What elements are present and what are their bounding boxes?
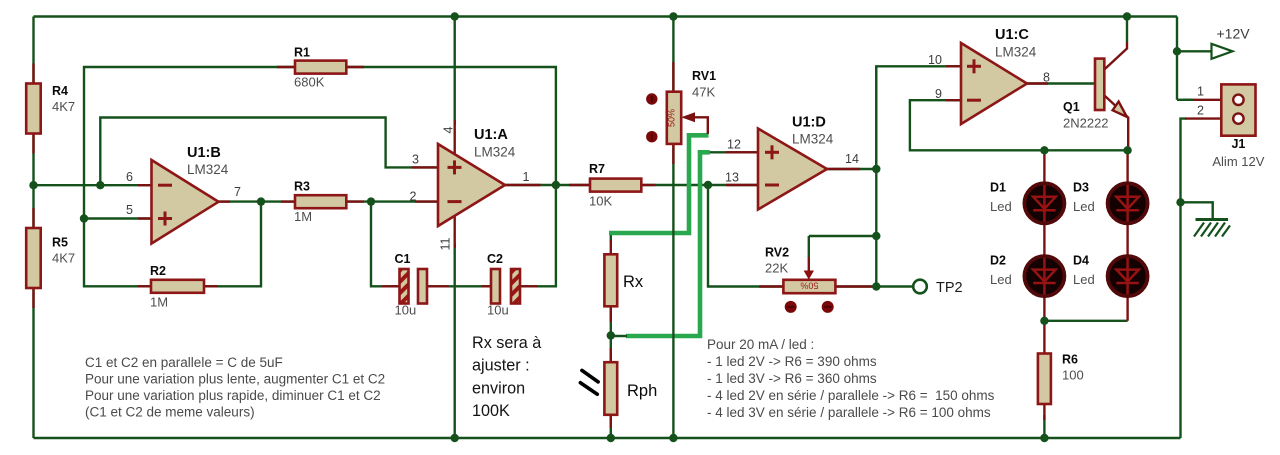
svg-text:Alim 12V: Alim 12V: [1212, 154, 1264, 169]
wire: U1:A pin4 supply from top rail: [454, 17, 456, 126]
op-amp U1:A: [410, 120, 541, 250]
svg-text:6: 6: [126, 170, 133, 184]
LED D1: [990, 150, 1064, 257]
svg-text:C1: C1: [395, 252, 411, 266]
svg-text:11: 11: [438, 237, 452, 250]
svg-text:50%: 50%: [667, 109, 677, 127]
op-amp U1:B: [126, 145, 241, 244]
wire: U1:C pin9 feedback net to LED anode rail: [910, 100, 1128, 150]
node: pin6 feedback junction: [96, 181, 104, 189]
wire: R1 right to U1:A pin1 vertical down to C2: [346, 67, 556, 286]
power flag +12V: [1212, 26, 1251, 59]
svg-text:LM324: LM324: [474, 145, 516, 160]
ground symbol: [1194, 220, 1230, 237]
photoresistor Rph: [580, 348, 657, 428]
svg-text:10K: 10K: [589, 194, 612, 209]
svg-text:R1: R1: [294, 46, 310, 60]
node: pin1/R7/C2 junction: [552, 181, 560, 189]
svg-text:8: 8: [1043, 70, 1050, 84]
green link: U1:D pin12 to Rx/Rph node: [626, 152, 710, 336]
svg-text:Q1: Q1: [1063, 100, 1080, 114]
node: ground symbol junction: [1176, 198, 1184, 206]
svg-text:U1:C: U1:C: [995, 27, 1029, 43]
svg-text:2: 2: [410, 190, 417, 204]
wire: +12V top rail: [34, 15, 1178, 17]
wire: J1 pin2 vertical to ground rail: [1181, 119, 1187, 438]
wire: R1 feedback net (R1 left vertical to pin5/R2): [84, 67, 295, 286]
connector J1: [1177, 84, 1265, 169]
node: D2/D4/R6 junction: [1040, 317, 1048, 325]
wire: Q1 collector from top rail: [1126, 17, 1128, 43]
wire: R3 right to U1:A pin2: [346, 200, 438, 202]
svg-text:- 1 led 3V -> R6 = 360 ohms: - 1 led 3V -> R6 = 360 ohms: [707, 371, 877, 386]
transistor Q1: [1063, 42, 1128, 150]
wire: feedback U1:A pin3 to U1:B pin6 node: [100, 118, 438, 186]
svg-text:10: 10: [928, 53, 942, 67]
capacitor C2: [481, 252, 537, 318]
svg-text:R3: R3: [294, 180, 310, 194]
note: C1 C2 annotation: [85, 355, 385, 420]
resistor R4: [26, 64, 75, 154]
svg-text:D3: D3: [1073, 181, 1089, 195]
potentiometer RV2: [759, 236, 874, 313]
resistor R5: [26, 208, 75, 308]
wire: R6 bottom to ground rail: [1043, 415, 1045, 438]
svg-text:10u: 10u: [395, 303, 417, 318]
node: RV2 wiper junction: [872, 232, 880, 240]
wire: C1 to C2 link: [427, 285, 491, 287]
resistor R3: [281, 180, 364, 225]
wire: RV1 rail from top to bottom: [672, 17, 674, 439]
node: pin5/R1/R2 junction: [80, 214, 88, 222]
LED D3: [1073, 150, 1148, 257]
svg-text:C1 et C2 en parallele = C de 5: C1 et C2 en parallele = C de 5uF: [85, 355, 283, 370]
node: pin13/RV2 junction: [704, 181, 712, 189]
svg-text:LM324: LM324: [792, 132, 834, 147]
svg-text:Pour une variation plus lente,: Pour une variation plus lente, augmenter…: [85, 372, 385, 387]
svg-text:Rph: Rph: [627, 382, 657, 400]
wire: RV2 right to TP2: [835, 285, 913, 287]
resistor R2: [138, 264, 219, 310]
svg-text:1: 1: [523, 170, 530, 184]
svg-text:1M: 1M: [150, 295, 168, 310]
node: RV2 right junction: [872, 282, 880, 290]
svg-text:4: 4: [441, 126, 455, 133]
svg-text:R7: R7: [589, 162, 605, 176]
node: R3/C1/pin2 junction: [367, 197, 375, 205]
svg-text:Led: Led: [1073, 272, 1095, 287]
wire: J1 pin1 vertical from top rail: [1176, 17, 1178, 100]
svg-text:+12V: +12V: [1217, 26, 1251, 42]
svg-text:3: 3: [412, 152, 419, 166]
svg-text:22K: 22K: [765, 261, 788, 276]
wire: U1:A pin1 output to R7 and pin13: [505, 184, 758, 186]
svg-text:47K: 47K: [692, 85, 715, 100]
svg-text:4K7: 4K7: [52, 99, 75, 114]
wire: left supply rail: [32, 17, 34, 439]
svg-text:9: 9: [935, 87, 942, 101]
node: Rx/Rph green junction: [607, 331, 615, 339]
svg-text:C2: C2: [487, 252, 503, 266]
svg-text:ajuster :: ajuster :: [472, 357, 530, 375]
svg-text:- 4 led 3V en série / parallel: - 4 led 3V en série / parallele -> R6 = …: [707, 405, 991, 420]
wire: ground symbol stub: [1181, 202, 1213, 219]
wire: U1:B pin5 input stub: [84, 217, 152, 219]
svg-text:1: 1: [1197, 85, 1204, 99]
svg-text:RV2: RV2: [765, 246, 789, 260]
svg-text:R6: R6: [1062, 353, 1078, 367]
svg-text:2: 2: [1197, 104, 1204, 118]
svg-text:- 1 led 2V -> R6 = 390 ohms: - 1 led 2V -> R6 = 390 ohms: [707, 354, 877, 369]
wire: R2 right vertical to pin7 node: [204, 202, 261, 287]
svg-text:Pour une variation plus rapide: Pour une variation plus rapide, diminuer…: [85, 388, 381, 403]
svg-text:U1:D: U1:D: [792, 115, 826, 131]
node: top rail Q1 junction: [1123, 12, 1131, 20]
svg-text:50%: 50%: [800, 281, 818, 291]
svg-text:1M: 1M: [294, 209, 312, 224]
node: bottom rail Rph junction: [607, 434, 615, 442]
svg-text:D1: D1: [990, 181, 1006, 195]
node: +12V junction: [1173, 47, 1181, 55]
svg-text:(C1 et C2 de meme valeurs): (C1 et C2 de meme valeurs): [85, 405, 255, 420]
wire: RV2 left vertical from pin13 node: [708, 185, 783, 287]
op-amp U1:D: [725, 115, 860, 210]
resistor R6: [1038, 321, 1084, 420]
node: Q1 emitter / D3 junction: [1123, 146, 1131, 154]
wire: RV2 wiper link: [809, 235, 877, 237]
svg-text:D2: D2: [990, 254, 1006, 268]
node: top rail RV1 junction: [669, 12, 677, 20]
wire: U1:D output vertical down to RV2 right: [875, 66, 877, 286]
wire: U1:D pin14 output net to U1:C pin10: [827, 66, 961, 169]
node: bottom rail pin11 junction: [451, 434, 459, 442]
node: bottom rail RV1 junction: [669, 434, 677, 442]
svg-text:R4: R4: [52, 84, 68, 98]
resistor R1: [277, 46, 364, 90]
resistor R7: [569, 162, 656, 209]
svg-text:13: 13: [725, 170, 739, 184]
svg-text:7: 7: [234, 185, 241, 199]
node: R4/R5 junction: [29, 181, 37, 189]
svg-text:100: 100: [1062, 368, 1084, 383]
svg-text:680K: 680K: [294, 75, 325, 90]
svg-text:D4: D4: [1073, 254, 1089, 268]
svg-text:LM324: LM324: [187, 162, 229, 177]
wire: +12V arrow stub: [1177, 50, 1211, 52]
resistor Rx: [604, 240, 644, 322]
test point TP2: [913, 280, 962, 296]
svg-text:- 4 led 2V en série / parallel: - 4 led 2V en série / parallele -> R6 = …: [707, 388, 995, 403]
wire: C1 branch down from pin2 node: [371, 202, 398, 287]
svg-text:14: 14: [845, 152, 859, 166]
green link: RV1 wiper to Rx top: [609, 135, 709, 233]
note: Rx annotation: [472, 334, 541, 420]
op-amp U1:C: [928, 27, 1050, 124]
LED D2: [990, 254, 1064, 321]
svg-text:Led: Led: [990, 199, 1012, 214]
svg-text:R2: R2: [150, 264, 166, 278]
wire: U1:A pin11 down to ground rail: [454, 243, 456, 438]
node: D1 anode junction: [1040, 146, 1048, 154]
svg-text:Led: Led: [990, 272, 1012, 287]
wire: Rph bottom to ground rail: [610, 415, 612, 438]
wire: Rx bottom to Rph top node: [610, 306, 612, 362]
svg-text:environ: environ: [472, 379, 525, 397]
LED D4: [1073, 254, 1148, 321]
wire: U1:D pin12 stub: [710, 151, 759, 153]
svg-text:Pour 20 mA / led :: Pour 20 mA / led :: [707, 337, 814, 352]
svg-text:U1:A: U1:A: [474, 127, 508, 143]
wire: U1:B pin7 output to R3: [219, 200, 296, 202]
wire: U1:B pin6 input net: [34, 184, 152, 186]
wire: dark stub from Rx/Rph node to green link: [611, 335, 627, 337]
svg-text:Rx sera à: Rx sera à: [472, 334, 541, 352]
svg-text:R5: R5: [52, 236, 68, 250]
svg-text:2N2222: 2N2222: [1063, 116, 1109, 131]
wire: Rx top from green link: [610, 233, 612, 241]
svg-text:TP2: TP2: [936, 280, 963, 296]
svg-text:4K7: 4K7: [52, 251, 75, 266]
node: top rail pin4 junction: [451, 12, 459, 20]
wire: ground bottom rail: [34, 437, 1181, 439]
svg-text:Rx: Rx: [623, 273, 644, 291]
node: U1:D out junction: [872, 165, 880, 173]
potentiometer RV1: [646, 62, 716, 164]
svg-text:LM324: LM324: [995, 45, 1037, 60]
svg-text:J1: J1: [1231, 137, 1245, 151]
capacitor C1: [382, 252, 449, 318]
note: R6 LED annotation: [707, 337, 995, 420]
svg-text:12: 12: [727, 138, 741, 152]
svg-text:Led: Led: [1073, 199, 1095, 214]
svg-text:10u: 10u: [487, 303, 509, 318]
svg-text:U1:B: U1:B: [187, 145, 221, 161]
svg-text:100K: 100K: [472, 402, 510, 420]
node: bottom rail R6 junction: [1040, 434, 1048, 442]
node: pin7/R2/R3 junction: [257, 197, 265, 205]
svg-text:RV1: RV1: [692, 69, 716, 83]
wire: U1:C pin8 output to Q1 base: [1027, 82, 1095, 84]
svg-text:5: 5: [126, 203, 133, 217]
wire: LED cathode bottom link D2-D4: [1044, 320, 1127, 322]
